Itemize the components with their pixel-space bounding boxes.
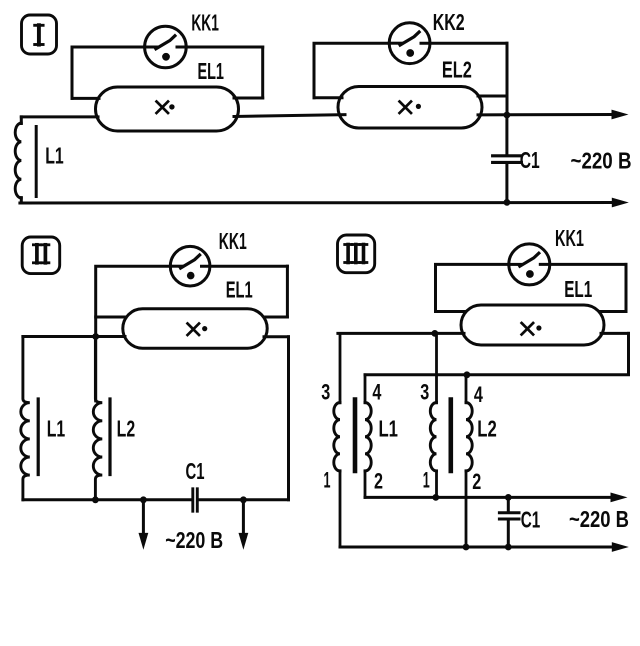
svg-text:L1: L1 [378,415,398,441]
wire: bottom rail left of C1 (section II) [23,498,190,501]
svg-text:KK1: KK1 [555,225,584,251]
svg-text:L1: L1 [45,142,64,168]
starter KK2 (section I) [389,23,430,64]
svg-text:KK1: KK1 [191,10,219,36]
svg-text:1: 1 [423,468,430,493]
svg-text:KK2: KK2 [433,9,465,35]
node: junction bottom (section I) [504,199,511,206]
wire: EL2 top leads (section I) [314,96,507,98]
starter KK1 (section II) [170,246,210,286]
transformer L2 core (section III) [448,400,453,472]
node: junction left pin (section II) [92,333,99,340]
wire: starter KK1 loop (section II) [96,266,288,401]
svg-text:3: 3 [420,380,429,405]
capacitor C1 (section II) [193,489,198,511]
inductor L1 (section II) [21,337,38,500]
svg-text:L2: L2 [477,415,497,441]
svg-text:L2: L2 [117,415,136,441]
wire: EL1 bottom-left lead (section I) [21,115,98,118]
wire: mains arrow down left (section II) [139,500,149,550]
starter KK1 (section I) [145,26,187,68]
svg-text:4: 4 [372,380,382,405]
inductor L2 (section II) [93,337,110,500]
svg-text:EL1: EL1 [226,277,253,303]
lamp EL1 (section II) [123,309,267,348]
svg-text:EL1: EL1 [197,58,224,84]
transformer L1 winding 4-2 (section III) [365,375,371,498]
svg-text:1: 1 [324,468,331,493]
svg-text:KK1: KK1 [219,228,247,254]
lamp EL2 (section I) [338,87,482,129]
wire: right side down to pin4 rail (section III) [365,333,629,374]
node: junction L2 pin1 (section III) [432,494,439,501]
scheme label II [22,237,60,274]
svg-text:EL1: EL1 [564,276,592,302]
scheme label III [338,235,375,273]
wire: starter KK1 loop (section III) [436,264,627,311]
node: junction pin4 rail (section III) [464,371,471,378]
node: junction C1 bottom (section III) [505,544,512,551]
svg-text:C1: C1 [520,147,540,173]
wire: EL1 top leads (section I) [72,97,263,100]
inductor L1 (section I) [15,117,36,203]
starter KK1 (section III) [509,244,550,285]
wire: bottom rail right of C1 (section II) [200,337,289,500]
svg-text:C1: C1 [521,506,541,532]
svg-text:~220 В: ~220 В [569,506,629,532]
scheme label I [22,15,57,54]
node: junction L2 pin3 top (section III) [431,330,438,337]
wire: mains arrow down right (section II) [239,500,249,550]
node: junction top (section I) [504,112,511,119]
transformer L2 winding 4-2 (section III) [466,375,472,547]
svg-text:~220 В: ~220 В [571,147,632,173]
wire: EL1 to EL2 (section I) [234,115,345,117]
svg-text:2: 2 [374,469,383,494]
transformer L1 core (section III) [353,400,358,472]
wire: starter KK1 loop (section I) [72,47,263,98]
svg-text:4: 4 [474,382,484,407]
node: junction C1 top (section III) [505,494,512,501]
node: junction L2 bottom (section II) [92,496,99,503]
svg-text:L1: L1 [47,415,66,441]
lamp EL1 (section III) [461,305,604,345]
wire: mains top line with arrow (section I) [478,110,629,120]
svg-text:C1: C1 [186,458,205,484]
node: junction arrow 1 (section II) [140,496,147,503]
wire: mains line lower with arrow (section III) [340,542,629,552]
wire: starter KK2 loop (section I) [314,43,507,115]
node: junction arrow 2 (section II) [240,496,247,503]
svg-text:2: 2 [472,469,481,494]
wire: mains line upper with arrow (section III) [365,493,628,503]
capacitor C1 (section III) [499,497,519,547]
wire: mains bottom line with arrow (section I) [20,198,629,208]
transformer L2 winding 3-1 (section III) [430,333,436,497]
svg-text:3: 3 [321,380,330,405]
wire: EL1 leads (section III) [338,312,629,334]
svg-text:~220 В: ~220 В [165,527,223,553]
capacitor C1 (section I) [493,115,522,202]
wire: EL1 leads (section II) [23,317,289,337]
transformer L1 winding 3-1 (section III) [334,333,340,547]
svg-text:EL2: EL2 [442,56,472,82]
node: junction L2 pin2 bottom (section III) [463,544,470,551]
lamp EL1 (section I) [96,87,239,131]
